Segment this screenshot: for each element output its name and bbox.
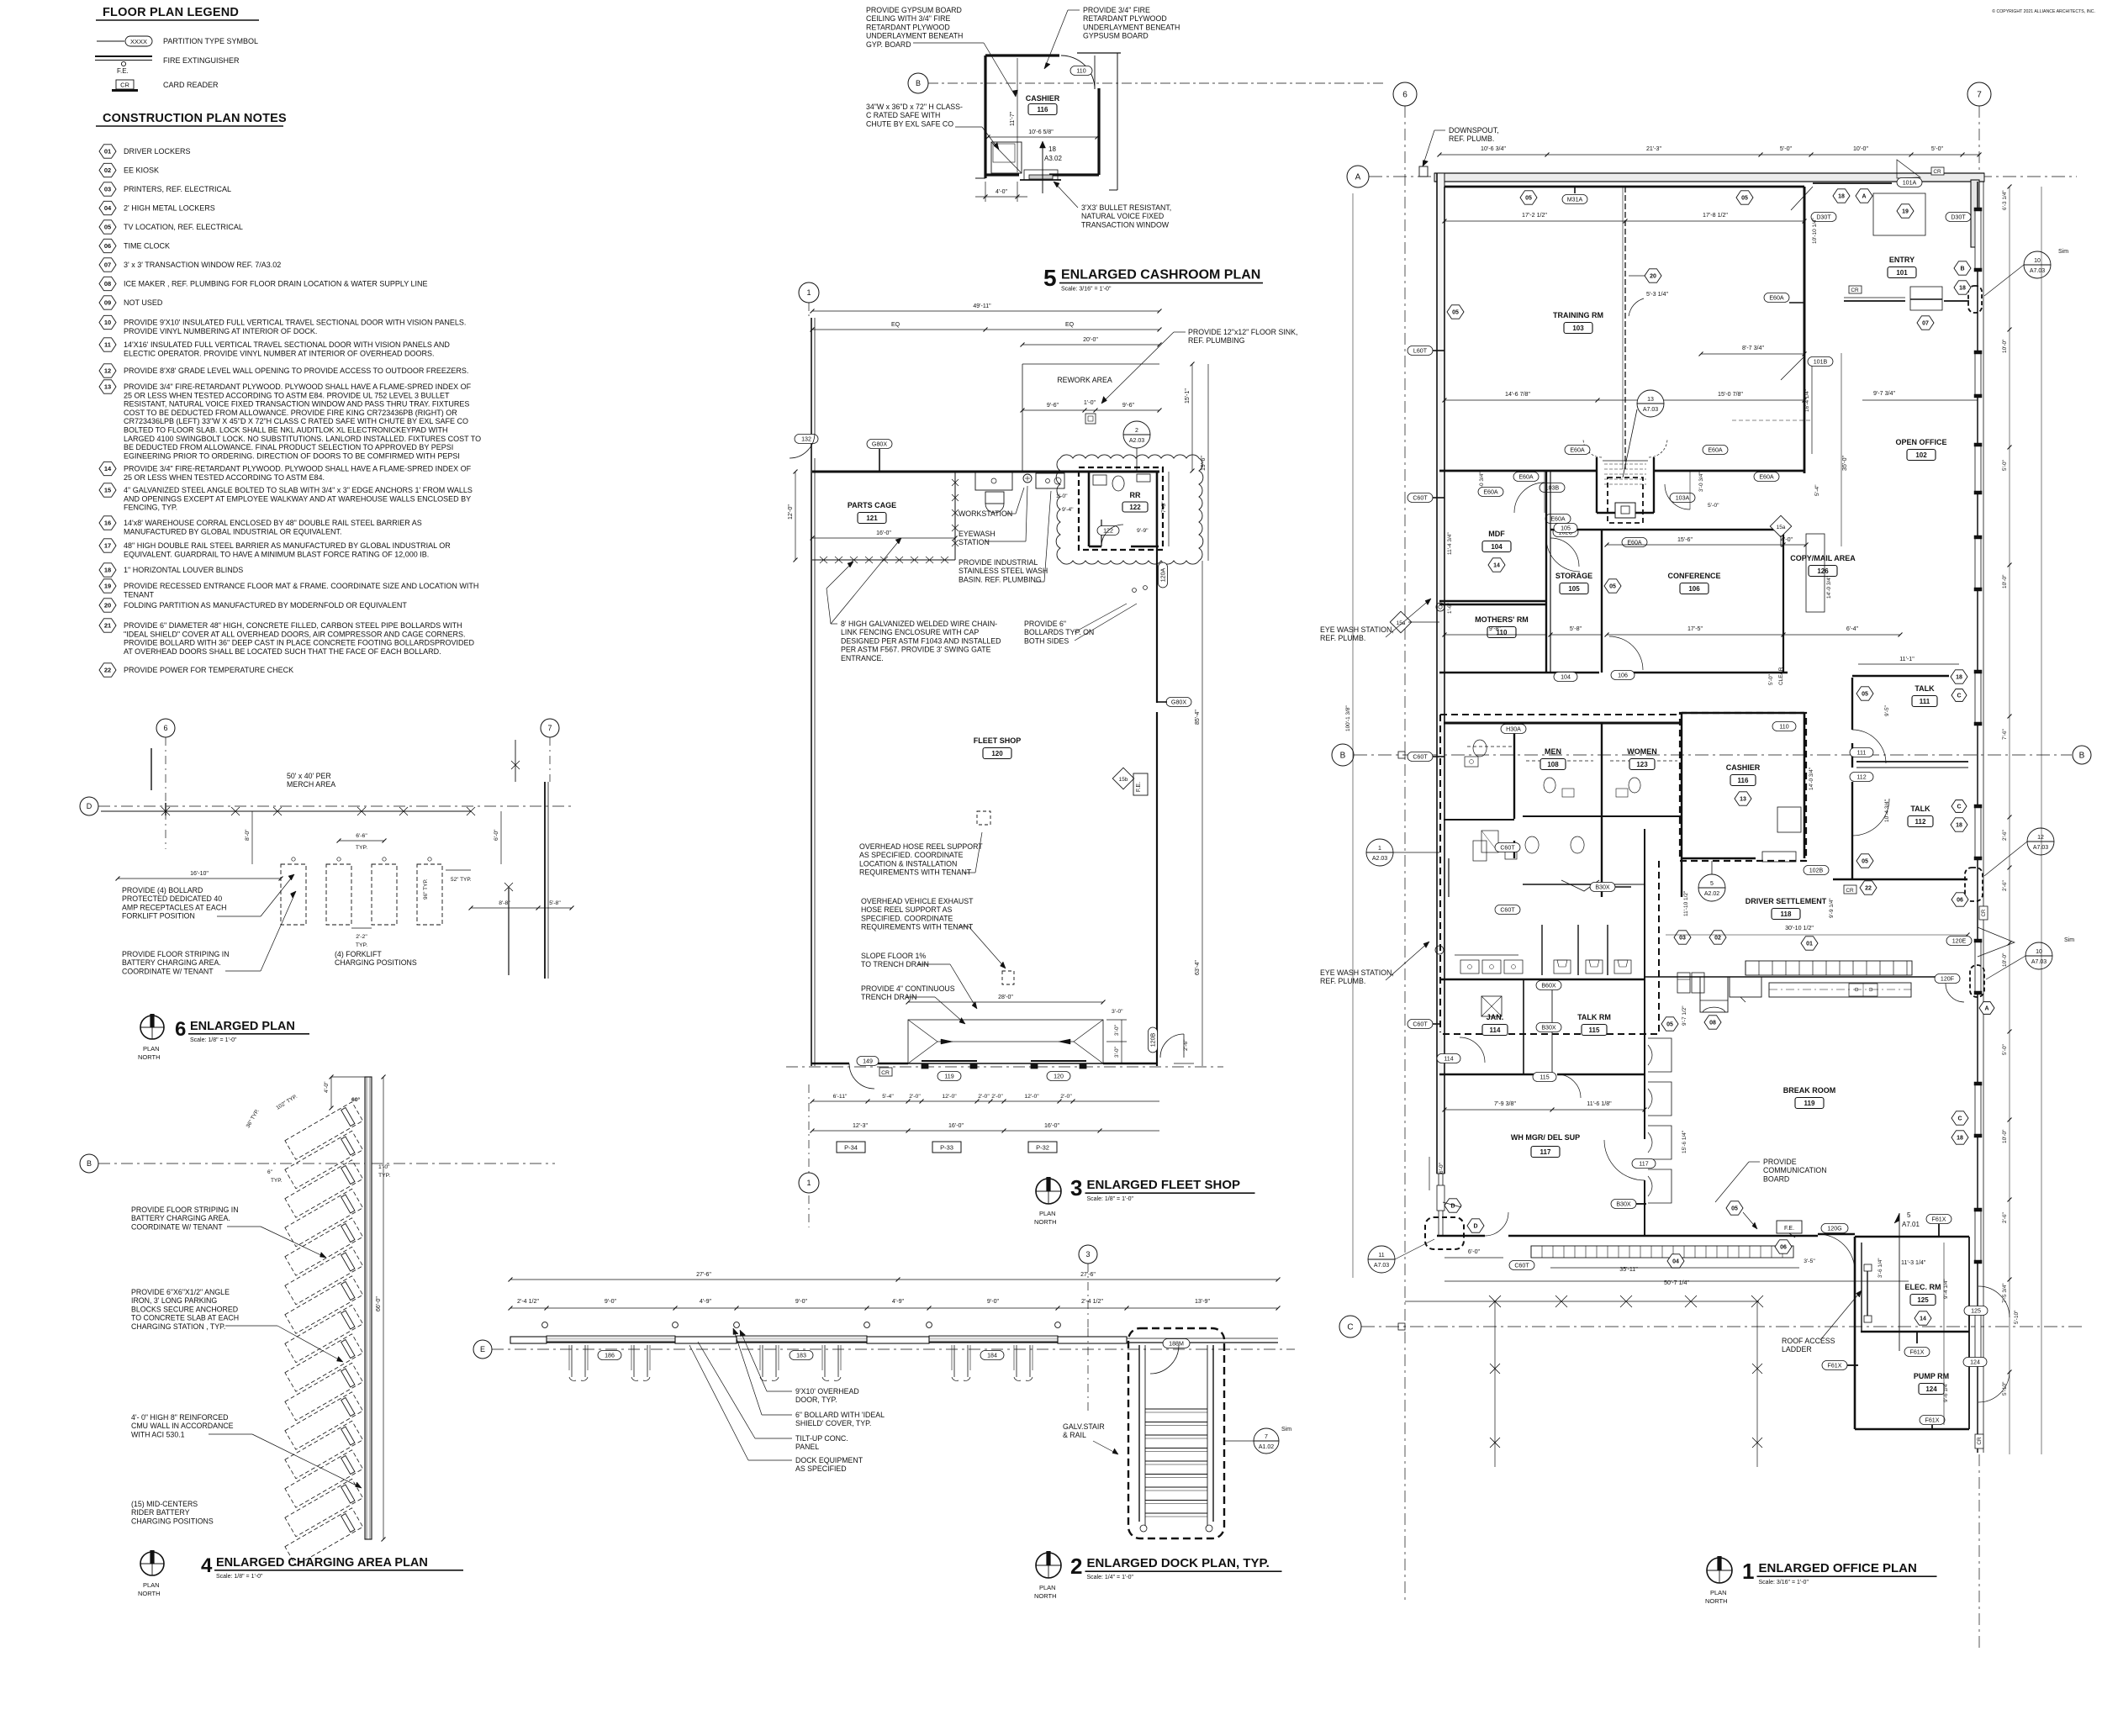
dim 28-0 trench — [908, 1001, 1103, 1003]
svg-text:25 OR LESS WHEN TESTED ACCORDI: 25 OR LESS WHEN TESTED ACCORDING TO ASTM… — [124, 391, 450, 399]
main horizontal wall parts cage top — [812, 471, 1159, 473]
svg-text:117: 117 — [1540, 1148, 1551, 1156]
title 1 enlarged office plan — [1707, 1558, 1732, 1583]
dim 8-0 vertical — [251, 811, 253, 864]
bathroom stall partitions dashed — [1526, 760, 1593, 762]
svg-text:CHUTE BY EXL SAFE CO: CHUTE BY EXL SAFE CO — [866, 119, 953, 128]
svg-text:LADDER: LADDER — [1782, 1345, 1812, 1353]
svg-text:17: 17 — [104, 542, 111, 550]
keynote 15a diamond — [1770, 515, 1791, 536]
svg-text:34"W x 36"D x 72" H CLASS-: 34"W x 36"D x 72" H CLASS- — [866, 103, 963, 111]
svg-text:SLOPE FLOOR 1%: SLOPE FLOOR 1% — [861, 952, 926, 960]
dim 85-4 right — [1202, 561, 1203, 883]
svg-text:(15) MID-CENTERS: (15) MID-CENTERS — [131, 1500, 198, 1508]
svg-text:L60T: L60T — [1413, 347, 1428, 354]
training dims 14-6 15-0 — [1444, 399, 1804, 401]
svg-text:OVERHEAD HOSE REEL SUPPORT: OVERHEAD HOSE REEL SUPPORT — [859, 842, 983, 851]
svg-text:125: 125 — [1971, 1307, 1981, 1314]
svg-text:9'-8": 9'-8" — [1489, 625, 1502, 632]
svg-text:08: 08 — [104, 280, 111, 288]
svg-text:1: 1 — [1742, 1559, 1754, 1584]
svg-text:101B: 101B — [1814, 358, 1828, 365]
note 11 — [99, 338, 116, 351]
svg-text:105: 105 — [1561, 525, 1571, 531]
dim 6-6 typ — [339, 840, 384, 842]
dim 16-10 — [118, 878, 281, 879]
svg-text:12: 12 — [2037, 835, 2044, 841]
svg-text:STATION: STATION — [959, 538, 990, 546]
door 110 swing — [1061, 55, 1095, 89]
door tags 104 106 bottom — [1554, 673, 1577, 682]
svg-text:15'-6 1/4": 15'-6 1/4" — [1682, 1130, 1687, 1153]
wall below training — [1439, 470, 1597, 472]
dim 10-6 5/8 — [988, 136, 1097, 138]
svg-text:A7.03: A7.03 — [1374, 1263, 1389, 1269]
svg-text:STAINLESS STEEL WASH: STAINLESS STEEL WASH — [959, 567, 1048, 575]
thick corner wall right — [1971, 180, 1979, 247]
15a diamond left — [1390, 611, 1411, 632]
svg-text:LOCATION & INSTALLATION: LOCATION & INSTALLATION — [859, 859, 957, 868]
lockers row break room — [1746, 961, 1912, 975]
svg-text:PLAN: PLAN — [143, 1045, 160, 1053]
dashed detail boundary 13/A7.03 — [1608, 478, 1643, 523]
note 07 — [99, 258, 116, 272]
svg-text:106: 106 — [1688, 585, 1700, 593]
svg-text:2'-2": 2'-2" — [356, 934, 367, 940]
svg-text:48" HIGH DOUBLE RAIL STEEL BAR: 48" HIGH DOUBLE RAIL STEEL BARRIER AS MA… — [124, 541, 451, 550]
svg-text:DESIGNED PER ASTM F1043 AND IN: DESIGNED PER ASTM F1043 AND INSTALLED — [841, 636, 1001, 645]
svg-text:WOMEN: WOMEN — [1627, 747, 1657, 756]
svg-text:SHIELD' COVER, TYP.: SHIELD' COVER, TYP. — [795, 1419, 871, 1427]
svg-text:CEILING WITH 3/4" FIRE: CEILING WITH 3/4" FIRE — [866, 14, 951, 23]
svg-text:03: 03 — [1679, 936, 1686, 942]
svg-text:10'-0": 10'-0" — [2002, 952, 2008, 967]
svg-text:BREAK ROOM: BREAK ROOM — [1783, 1086, 1836, 1095]
svg-text:CONSTRUCTION PLAN NOTES: CONSTRUCTION PLAN NOTES — [103, 112, 287, 125]
entry storefront wall — [1844, 300, 1905, 302]
svg-text:TV LOCATION, REF. ELECTRICAL: TV LOCATION, REF. ELECTRICAL — [124, 223, 243, 231]
door tags 114 115 — [1437, 1054, 1460, 1063]
svg-text:NORTH: NORTH — [1705, 1597, 1728, 1605]
svg-text:DRIVER LOCKERS: DRIVER LOCKERS — [124, 147, 191, 156]
svg-text:NATURAL VOICE FIXED: NATURAL VOICE FIXED — [1081, 212, 1164, 220]
svg-text:PROVIDE FLOOR STRIPING IN: PROVIDE FLOOR STRIPING IN — [131, 1206, 239, 1214]
svg-text:10'-4 3/4": 10'-4 3/4" — [1884, 799, 1890, 822]
svg-text:7'-5": 7'-5" — [1161, 501, 1167, 513]
svg-text:07: 07 — [104, 261, 111, 269]
svg-text:18: 18 — [1956, 675, 1962, 681]
svg-text:COORDINATE W/ TENANT: COORDINATE W/ TENANT — [131, 1222, 223, 1231]
tags 18 A top — [1833, 189, 1850, 203]
dims 8-8 5-8 — [471, 907, 538, 909]
conference top dim 15-6 — [1607, 544, 1783, 546]
svg-text:9'-5": 9'-5" — [1884, 704, 1890, 716]
svg-text:103: 103 — [1572, 325, 1584, 332]
svg-text:116: 116 — [1038, 106, 1048, 113]
grid bubble B — [908, 73, 928, 93]
svg-text:66'-0": 66'-0" — [376, 1296, 382, 1311]
svg-text:B: B — [1960, 266, 1964, 272]
svg-text:ENLARGED PLAN: ENLARGED PLAN — [190, 1020, 295, 1033]
note 14 — [99, 462, 116, 475]
door 101B — [1808, 357, 1833, 367]
svg-text:PROVIDE POWER FOR TEMPERATURE: PROVIDE POWER FOR TEMPERATURE CHECK — [124, 666, 293, 674]
door 101A — [1897, 178, 1922, 187]
svg-text:05: 05 — [104, 224, 111, 231]
svg-text:FLEET SHOP: FLEET SHOP — [974, 736, 1022, 745]
svg-text:5'-8": 5'-8" — [1570, 625, 1582, 632]
bathroom block walls — [1444, 722, 1682, 725]
svg-text:F61X: F61X — [1828, 1362, 1842, 1369]
svg-text:07: 07 — [1922, 321, 1929, 327]
svg-text:101A: 101A — [1903, 179, 1917, 186]
svg-text:IRON, 3' LONG PARKING: IRON, 3' LONG PARKING — [131, 1296, 217, 1305]
door 120B right — [1149, 1027, 1158, 1053]
entry area — [1804, 187, 1806, 353]
svg-text:D: D — [87, 802, 92, 810]
door tags 103B 103A — [1540, 483, 1565, 493]
svg-text:PROVIDE FLOOR STRIPING IN: PROVIDE FLOOR STRIPING IN — [122, 950, 230, 958]
svg-text:35'-11": 35'-11" — [1619, 1266, 1638, 1273]
svg-text:05: 05 — [1731, 1206, 1738, 1212]
svg-text:BASIN. REF. PLUMBING: BASIN. REF. PLUMBING — [959, 575, 1042, 583]
svg-text:REQUIREMENTS WITH TENANT: REQUIREMENTS WITH TENANT — [861, 923, 974, 931]
svg-text:25 OR LESS WHEN TESTED ACCORDI: 25 OR LESS WHEN TESTED ACCORDING TO ASTM… — [124, 473, 325, 482]
svg-text:120: 120 — [991, 750, 1003, 757]
svg-text:ENTRANCE.: ENTRANCE. — [841, 654, 884, 662]
svg-text:& RAIL: & RAIL — [1063, 1431, 1086, 1439]
svg-text:110: 110 — [1076, 67, 1085, 74]
office left exterior wall — [1437, 173, 1444, 1174]
svg-text:D: D — [1473, 1224, 1477, 1230]
svg-text:C60T: C60T — [1514, 1262, 1529, 1269]
svg-text:5'-0": 5'-0" — [1708, 503, 1719, 509]
svg-text:21'-3": 21'-3" — [1646, 145, 1662, 152]
door 102C — [1553, 528, 1578, 537]
svg-text:LARGED 4100 SWINGBOLT LOCK. NO: LARGED 4100 SWINGBOLT LOCK. NO SUBSTITUT… — [124, 435, 481, 443]
corridor diagonal door — [1561, 880, 1599, 891]
svg-text:1'-0": 1'-0" — [1056, 493, 1068, 499]
svg-text:PLAN: PLAN — [143, 1581, 160, 1589]
svg-text:06: 06 — [1780, 1245, 1787, 1251]
dock levelers — [571, 1345, 573, 1377]
grid bubble D left plan — [80, 797, 98, 815]
svg-text:BATTERY CHARGING AREA.: BATTERY CHARGING AREA. — [131, 1214, 230, 1222]
svg-text:EQUIVALENT. GUARDRAIL TO HAVE: EQUIVALENT. GUARDRAIL TO HAVE A MINIMUM … — [124, 550, 429, 558]
svg-text:FLOOR PLAN LEGEND: FLOOR PLAN LEGEND — [103, 6, 239, 19]
svg-text:05: 05 — [1666, 1022, 1673, 1028]
svg-text:2'-0": 2'-0" — [1060, 1094, 1072, 1100]
RR room walls — [1088, 472, 1091, 546]
tag 102B — [1804, 866, 1829, 875]
C60T tag left — [1407, 493, 1433, 503]
dim 66-0 charging — [383, 1077, 384, 1539]
overhead door 120 — [1031, 1060, 1086, 1062]
dashed detail corner — [1425, 1217, 1464, 1249]
svg-text:PROVIDE 3/4" FIRE-RETARDANT PL: PROVIDE 3/4" FIRE-RETARDANT PLYWOOD. PLY… — [124, 383, 472, 391]
svg-text:7'-9 3/8": 7'-9 3/8" — [1494, 1100, 1516, 1107]
svg-text:20: 20 — [104, 602, 111, 609]
H30A tag — [1501, 725, 1526, 734]
svg-text:103A: 103A — [1676, 494, 1690, 501]
counter break room — [1769, 983, 1911, 997]
svg-text:C: C — [1957, 1116, 1962, 1122]
svg-text:01: 01 — [1806, 942, 1813, 947]
G80X tag — [867, 440, 892, 449]
note 12 — [99, 364, 116, 377]
svg-text:16'-0": 16'-0" — [948, 1122, 964, 1129]
svg-text:TALK: TALK — [1915, 684, 1935, 693]
note 16 — [99, 516, 116, 530]
svg-text:05: 05 — [1452, 310, 1459, 316]
svg-text:3: 3 — [1085, 1250, 1090, 1258]
svg-text:2'-0": 2'-0" — [978, 1094, 990, 1100]
svg-text:115: 115 — [1589, 1026, 1600, 1034]
svg-text:CASHIER: CASHIER — [1726, 763, 1761, 772]
overhead door 119 — [922, 1060, 977, 1062]
svg-text:CMU WALL IN ACCORDANCE: CMU WALL IN ACCORDANCE — [131, 1422, 234, 1430]
svg-text:UNDERLAYMENT BENEATH: UNDERLAYMENT BENEATH — [1083, 23, 1180, 31]
svg-text:6": 6" — [267, 1169, 273, 1175]
svg-text:5'-4": 5'-4" — [1814, 484, 1820, 496]
svg-text:PRINTERS, REF. ELECTRICAL: PRINTERS, REF. ELECTRICAL — [124, 185, 231, 193]
svg-text:112: 112 — [1856, 773, 1866, 780]
svg-text:16'-10": 16'-10" — [190, 871, 209, 877]
svg-text:19: 19 — [104, 583, 111, 590]
E60A tag right training — [1764, 293, 1789, 303]
svg-text:AT OVERHEAD DOORS SHALL BE LOC: AT OVERHEAD DOORS SHALL BE LOCATED SUCH … — [124, 647, 441, 656]
svg-text:MDF: MDF — [1488, 530, 1505, 538]
hexagons C 18 break right — [1951, 1111, 1968, 1125]
svg-text:CARD READER: CARD READER — [163, 81, 219, 89]
svg-text:50' x 40' PER: 50' x 40' PER — [287, 772, 331, 780]
svg-text:18: 18 — [1048, 145, 1056, 153]
svg-text:PLAN: PLAN — [1710, 1589, 1727, 1596]
fleet shop right wall — [1156, 546, 1158, 703]
svg-text:13'-9": 13'-9" — [1195, 1298, 1211, 1305]
svg-text:2: 2 — [1070, 1554, 1082, 1579]
corridor walls below bathrooms — [1448, 858, 1450, 897]
svg-text:120G: 120G — [1827, 1225, 1841, 1232]
svg-text:EYEWASH: EYEWASH — [959, 530, 996, 538]
svg-text:4: 4 — [201, 1554, 213, 1577]
svg-text:05: 05 — [1862, 692, 1868, 698]
svg-text:3'-6 1/4": 3'-6 1/4" — [1878, 1258, 1883, 1278]
svg-text:A: A — [1862, 194, 1866, 200]
svg-text:PARTITION TYPE SYMBOL: PARTITION TYPE SYMBOL — [163, 37, 258, 45]
svg-text:FIRE EXTINGUISHER: FIRE EXTINGUISHER — [163, 56, 240, 65]
transaction window — [1024, 170, 1058, 180]
svg-text:A7.03: A7.03 — [2031, 959, 2047, 965]
svg-text:14: 14 — [1493, 563, 1500, 569]
svg-text:PER ASTM F567. PROVIDE 3' SWIN: PER ASTM F567. PROVIDE 3' SWING GATE — [841, 646, 991, 654]
svg-text:CR: CR — [1933, 169, 1941, 175]
svg-text:EYE WASH STATION,: EYE WASH STATION, — [1320, 968, 1394, 977]
svg-text:9'-9": 9'-9" — [1137, 528, 1149, 534]
svg-text:2: 2 — [1135, 428, 1138, 434]
svg-text:E60A: E60A — [1759, 473, 1774, 480]
bottom wall office — [1437, 1235, 1485, 1237]
svg-text:49'-11": 49'-11" — [973, 303, 991, 309]
svg-text:5'-0": 5'-0" — [1931, 145, 1944, 152]
svg-text:5: 5 — [1710, 881, 1714, 887]
svg-text:CHARGING POSITIONS: CHARGING POSITIONS — [335, 958, 417, 967]
door 132 — [795, 435, 818, 444]
driver settlement dashed region — [1658, 861, 1660, 1034]
svg-text:27'-6": 27'-6" — [696, 1272, 711, 1278]
svg-text:ENLARGED CASHROOM PLAN: ENLARGED CASHROOM PLAN — [1061, 268, 1260, 282]
svg-text:14: 14 — [1920, 1317, 1926, 1322]
svg-text:NORTH: NORTH — [1034, 1592, 1057, 1600]
svg-text:LINK FENCING ENCLOSURE WITH CA: LINK FENCING ENCLOSURE WITH CAP — [841, 628, 979, 636]
training top wall — [1439, 186, 1804, 188]
svg-text:18: 18 — [1959, 286, 1966, 292]
svg-text:05: 05 — [1525, 196, 1532, 202]
svg-text:RIDER BATTERY: RIDER BATTERY — [131, 1508, 190, 1517]
svg-text:186: 186 — [605, 1352, 615, 1359]
svg-text:4'- 0" HIGH 8" REINFORCED: 4'- 0" HIGH 8" REINFORCED — [131, 1413, 228, 1422]
detail 5/A2.02 — [1698, 874, 1725, 901]
svg-text:11'-1": 11'-1" — [1899, 656, 1915, 662]
svg-text:MEN: MEN — [1545, 747, 1561, 756]
cashier room walls office — [1682, 712, 1804, 715]
entry mat 19 — [1873, 193, 1925, 235]
svg-text:AS SPECIFIED: AS SPECIFIED — [795, 1464, 847, 1473]
note 09 — [99, 296, 116, 309]
svg-text:E60A: E60A — [1483, 488, 1498, 495]
svg-text:102B: 102B — [1809, 867, 1824, 873]
wash fountain jan row — [1439, 979, 1645, 980]
svg-text:01: 01 — [104, 148, 111, 156]
ladder symbol — [1864, 1264, 1872, 1271]
svg-text:5: 5 — [1043, 265, 1057, 291]
grid bubble C office — [1339, 1316, 1361, 1338]
note 04 — [99, 201, 116, 214]
svg-text:6: 6 — [175, 1018, 186, 1041]
sink counter tag — [1935, 974, 1960, 984]
svg-text:DRIVER SETTLEMENT: DRIVER SETTLEMENT — [1746, 897, 1827, 905]
svg-text:27'-6": 27'-6" — [1080, 1272, 1096, 1278]
svg-text:PROVIDE 8'X8' GRADE LEVEL WALL: PROVIDE 8'X8' GRADE LEVEL WALL OPENING T… — [124, 367, 468, 375]
svg-text:ENLARGED OFFICE PLAN: ENLARGED OFFICE PLAN — [1759, 1561, 1917, 1575]
svg-text:PROVIDE RECESSED ENTRANCE FLOO: PROVIDE RECESSED ENTRANCE FLOOR MAT & FR… — [124, 582, 478, 590]
svg-text:1: 1 — [806, 288, 811, 297]
svg-text:3: 3 — [1070, 1175, 1082, 1200]
break room top wall — [1645, 976, 1936, 978]
svg-text:TYP.: TYP. — [378, 1173, 390, 1179]
svg-text:9'-9 1/4": 9'-9 1/4" — [1829, 898, 1835, 918]
svg-text:TYP.: TYP. — [356, 942, 367, 948]
dock dim row lower — [510, 1307, 1278, 1309]
svg-text:5'-10": 5'-10" — [2014, 1310, 2020, 1324]
dim 2-6 right — [1174, 1063, 1194, 1064]
svg-text:MERCH AREA: MERCH AREA — [287, 780, 335, 789]
door tags 111 112 — [1850, 748, 1873, 757]
note 19 — [99, 579, 116, 593]
door 120E — [1946, 937, 1972, 946]
svg-text:2' HIGH METAL LOCKERS: 2' HIGH METAL LOCKERS — [124, 204, 215, 213]
charging stalls diagonal — [285, 1102, 363, 1160]
svg-text:11'-6 1/8": 11'-6 1/8" — [1587, 1100, 1612, 1107]
svg-text:A7.03: A7.03 — [2033, 845, 2048, 851]
svg-text:115: 115 — [1540, 1074, 1549, 1080]
dim 12-0 parts cage — [795, 472, 796, 560]
svg-text:4'-0": 4'-0" — [324, 1081, 330, 1093]
interior dim 11-7 — [1017, 58, 1018, 172]
svg-text:FORKLIFT POSITION: FORKLIFT POSITION — [122, 912, 195, 921]
svg-text:8' HIGH GALVANIZED WELDED WIRE: 8' HIGH GALVANIZED WELDED WIRE CHAIN- — [841, 620, 997, 628]
svg-text:1'-0": 1'-0" — [378, 1164, 390, 1170]
svg-text:108: 108 — [1547, 761, 1559, 768]
svg-text:22: 22 — [104, 667, 111, 674]
svg-text:P-33: P-33 — [940, 1144, 953, 1152]
E60A tag MDF — [1478, 488, 1503, 497]
svg-text:11'-10 1/2": 11'-10 1/2" — [1683, 890, 1689, 916]
svg-text:ELECTIC OPERATOR. PROVIDE VINY: ELECTIC OPERATOR. PROVIDE VINYL NUMBER A… — [124, 349, 435, 357]
svg-text:Scale: 1/8" = 1'-0": Scale: 1/8" = 1'-0" — [1087, 1196, 1134, 1202]
svg-text:PLAN: PLAN — [1039, 1210, 1056, 1217]
door arcs bottom left — [1485, 1212, 1508, 1236]
svg-text:15'-1": 15'-1" — [1185, 388, 1191, 404]
detail circles right 10/A7.03 — [2024, 251, 2051, 278]
door 122 tag — [1097, 526, 1119, 536]
svg-text:D30T: D30T — [1951, 214, 1966, 220]
svg-text:FENCING, TYP.: FENCING, TYP. — [124, 504, 177, 512]
svg-text:15a: 15a — [1777, 525, 1786, 530]
note 05 — [99, 220, 116, 234]
G80X tag right — [1166, 698, 1191, 707]
svg-text:103B: 103B — [1545, 484, 1560, 491]
svg-text:STORAGE: STORAGE — [1555, 572, 1592, 580]
wall y800 bottom of mothers row — [1439, 672, 1599, 673]
title 3 enlarged fleet shop — [1036, 1179, 1061, 1204]
svg-text:CR: CR — [1982, 909, 1987, 916]
svg-text:9'-7 3/4": 9'-7 3/4" — [1873, 390, 1895, 397]
svg-text:A: A — [1984, 1006, 1988, 1012]
small square grid C — [1398, 1323, 1405, 1330]
svg-text:7'-5 3/4": 7'-5 3/4" — [2002, 1283, 2008, 1303]
tag 120G — [1821, 1224, 1848, 1233]
svg-text:E60A: E60A — [1550, 515, 1566, 522]
svg-text:101: 101 — [1896, 269, 1908, 277]
svg-text:Scale: 1/8" = 1'-0": Scale: 1/8" = 1'-0" — [216, 1574, 263, 1580]
keynote 05 hexagons training — [1520, 191, 1537, 204]
svg-text:1: 1 — [1378, 846, 1381, 852]
svg-text:TALK RM: TALK RM — [1577, 1013, 1611, 1021]
svg-text:10'-0": 10'-0" — [1853, 145, 1869, 152]
svg-text:ENTRY: ENTRY — [1889, 256, 1915, 264]
svg-text:EGINEERING PRIOR TO ORDERING.: EGINEERING PRIOR TO ORDERING. DIRECTION … — [124, 451, 460, 460]
svg-text:A1.02: A1.02 — [1259, 1444, 1274, 1450]
svg-text:3'-0": 3'-0" — [1114, 1046, 1120, 1058]
svg-text:6: 6 — [1402, 91, 1407, 100]
cashier safe fixtures — [1777, 807, 1801, 832]
svg-text:19'-6": 19'-6" — [1201, 456, 1207, 471]
tag 105 door — [1554, 524, 1577, 533]
svg-text:E60A: E60A — [1570, 446, 1585, 453]
svg-text:2'-6": 2'-6" — [1183, 1039, 1189, 1051]
C60T tags bathroom — [1407, 752, 1433, 762]
svg-text:C60T: C60T — [1413, 753, 1428, 760]
svg-text:4'-0": 4'-0" — [996, 189, 1007, 195]
svg-text:122: 122 — [1129, 504, 1141, 511]
partition type symbol — [97, 40, 124, 42]
svg-text:REF. PLUMBING: REF. PLUMBING — [1188, 336, 1245, 345]
note 10 — [99, 315, 116, 329]
svg-text:BATTERY CHARGING AREA.: BATTERY CHARGING AREA. — [122, 958, 221, 967]
svg-text:EQ: EQ — [891, 322, 900, 328]
svg-text:PARTS CAGE: PARTS CAGE — [848, 501, 896, 509]
